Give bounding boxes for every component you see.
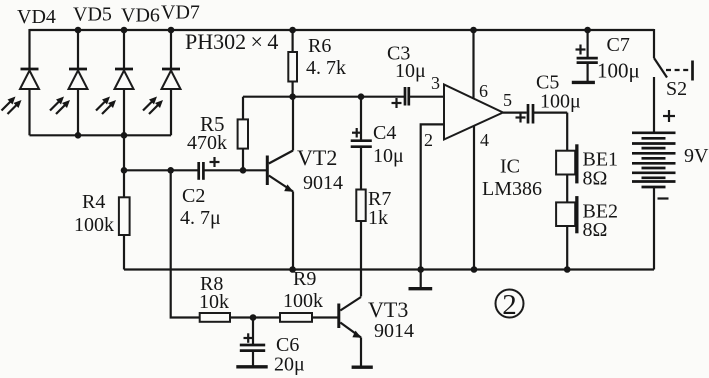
- transistor VT3: [337, 297, 373, 367]
- svg-text:VD5: VD5: [73, 4, 112, 26]
- junction dot feedback takeoff: [167, 167, 174, 174]
- svg-text:470k: 470k: [187, 132, 227, 154]
- resistor R8: [200, 313, 280, 322]
- junction dot BE rail: [564, 266, 571, 273]
- junction dot base node left: [121, 167, 128, 174]
- svg-text:8Ω: 8Ω: [583, 219, 608, 241]
- svg-text:6: 6: [479, 81, 488, 101]
- svg-text:10k: 10k: [199, 291, 229, 313]
- svg-text:VT2: VT2: [297, 145, 337, 170]
- svg-text:10μ: 10μ: [395, 60, 426, 82]
- svg-text:100μ: 100μ: [597, 59, 640, 83]
- earphone BE2: [556, 175, 578, 270]
- svg-text:R4: R4: [82, 191, 105, 213]
- photodiode VD5: [50, 29, 88, 135]
- capacitor C3: [392, 87, 445, 108]
- junction dot C6 top: [250, 314, 257, 321]
- svg-text:10μ: 10μ: [373, 145, 404, 167]
- svg-text:4. 7k: 4. 7k: [306, 57, 346, 79]
- capacitor C5: [516, 104, 568, 124]
- svg-text:C4: C4: [373, 122, 396, 144]
- svg-text:VD7: VD7: [161, 2, 200, 24]
- capacitor C4: [351, 97, 372, 190]
- junction dot VD6 bottom: [121, 132, 128, 139]
- svg-text:100k: 100k: [283, 290, 323, 312]
- wire pin4 ground: [473, 126, 475, 270]
- junction dot VD6 top: [121, 27, 128, 34]
- svg-text:C2: C2: [182, 185, 205, 207]
- junction dot R5 bottom: [240, 167, 247, 174]
- capacitor C7: [572, 30, 598, 82]
- svg-text:5: 5: [503, 90, 512, 110]
- svg-text:VT3: VT3: [368, 297, 408, 322]
- svg-text:VD6: VD6: [121, 5, 160, 27]
- junction dot VD7 top: [168, 27, 175, 34]
- junction dot pin2 rail: [417, 266, 424, 273]
- earphone BE1: [556, 113, 578, 184]
- svg-text:4: 4: [480, 130, 489, 150]
- junction dot VD5 top: [75, 27, 82, 34]
- svg-text:4. 7μ: 4. 7μ: [180, 207, 221, 229]
- wire base line right segment: [205, 169, 267, 171]
- svg-text:9V: 9V: [684, 145, 709, 167]
- wire photodiode bottom rail: [30, 134, 172, 136]
- capacitor C6: [236, 318, 267, 367]
- junction dot VD5 bottom: [75, 132, 82, 139]
- svg-text:C7: C7: [607, 34, 630, 56]
- battery B1 9V: [632, 77, 676, 270]
- svg-text:VD4: VD4: [17, 6, 56, 28]
- photodiode VD4: [2, 29, 40, 135]
- ground symbol under rail: [409, 270, 433, 289]
- svg-text:100k: 100k: [74, 214, 114, 236]
- wire pin6 supply: [472, 30, 474, 99]
- junction dot C4 top: [358, 93, 365, 100]
- capacitor C2: [199, 157, 220, 180]
- resistor R6: [288, 30, 297, 97]
- wire feedback branch: [171, 170, 200, 317]
- switch S2: [654, 29, 693, 81]
- wire op-amp output: [503, 111, 527, 113]
- svg-text:20μ: 20μ: [274, 354, 305, 376]
- op-amp U1 LM386: [444, 85, 503, 140]
- svg-text:1k: 1k: [368, 207, 388, 229]
- wire base line left segment: [124, 169, 198, 171]
- junction dot C7 rail: [584, 27, 591, 34]
- svg-text:IC: IC: [500, 156, 520, 178]
- svg-text:9014: 9014: [303, 172, 343, 194]
- svg-text:8Ω: 8Ω: [583, 168, 608, 190]
- svg-text:LM386: LM386: [482, 178, 542, 200]
- wire bottom ground rail: [124, 268, 654, 270]
- svg-text:S2: S2: [666, 78, 687, 100]
- wire top supply rail: [30, 29, 655, 31]
- svg-text:R9: R9: [293, 268, 316, 290]
- junction dot pin6 rail: [470, 27, 477, 34]
- svg-text:2: 2: [502, 289, 517, 321]
- wire mid line R5 to C3: [243, 96, 404, 98]
- svg-text:2: 2: [424, 130, 433, 150]
- wire pin2 step: [421, 124, 444, 269]
- svg-text:3: 3: [431, 73, 440, 93]
- junction dot R6 top: [289, 27, 296, 34]
- junction dot R6 bottom: [289, 93, 296, 100]
- junction dot VT2 emitter rail: [289, 266, 296, 273]
- resistor R5: [238, 97, 248, 171]
- svg-text:9014: 9014: [374, 320, 414, 342]
- transistor VT2: [266, 97, 294, 270]
- svg-text:100μ: 100μ: [540, 91, 581, 113]
- svg-text:PH302 × 4: PH302 × 4: [185, 29, 278, 54]
- figure number circled 2: [496, 289, 524, 321]
- resistor R7: [356, 190, 365, 297]
- resistor R4: [119, 170, 130, 269]
- wire VD column down to base node: [123, 135, 125, 170]
- photodiode VD6: [96, 29, 134, 135]
- resistor R9: [280, 313, 338, 322]
- junction dot pin4 rail: [471, 266, 478, 273]
- svg-text:R6: R6: [308, 35, 331, 57]
- photodiode VD7: [143, 29, 181, 135]
